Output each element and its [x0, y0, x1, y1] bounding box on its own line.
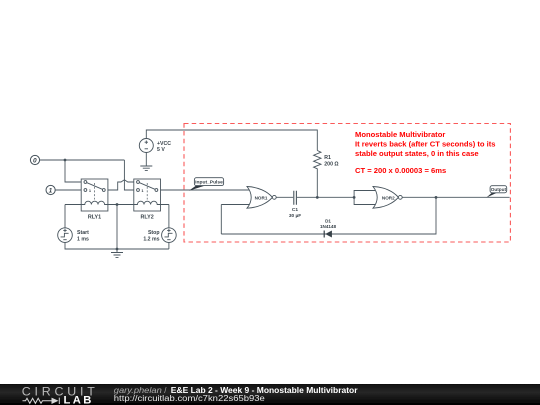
- svg-text:0: 0: [33, 158, 37, 165]
- svg-text:R1: R1: [324, 155, 331, 161]
- svg-text:stable output states, 0 in thi: stable output states, 0 in this case: [355, 149, 479, 158]
- svg-text:NOR2: NOR2: [382, 195, 395, 200]
- svg-text:D1: D1: [325, 218, 331, 223]
- svg-text:1N4148: 1N4148: [320, 224, 337, 229]
- svg-text:LAB: LAB: [64, 394, 94, 405]
- svg-text:200 Ω: 200 Ω: [324, 161, 338, 167]
- svg-text:It reverts back (after CT seco: It reverts back (after CT seconds) to it…: [355, 139, 496, 148]
- svg-text:Input_Pulse: Input_Pulse: [195, 180, 223, 186]
- svg-text:Stop: Stop: [148, 230, 160, 236]
- svg-text:http://circuitlab.com/c7kn22s6: http://circuitlab.com/c7kn22s65b93e: [114, 394, 266, 403]
- svg-text:1: 1: [49, 188, 53, 195]
- svg-text:Monostable Multivibrator: Monostable Multivibrator: [355, 130, 445, 139]
- svg-text:5 V: 5 V: [157, 147, 165, 153]
- svg-text:1.2 ms: 1.2 ms: [143, 236, 159, 242]
- svg-text:1 ms: 1 ms: [77, 236, 89, 242]
- svg-text:CT = 200 x 0.00003 = 6ms: CT = 200 x 0.00003 = 6ms: [355, 166, 446, 175]
- svg-text:C1: C1: [292, 207, 298, 213]
- svg-text:RLY1: RLY1: [88, 215, 101, 221]
- svg-text:NOR1: NOR1: [255, 195, 268, 200]
- svg-text:Output: Output: [491, 187, 507, 192]
- svg-text:RLY2: RLY2: [140, 215, 153, 221]
- svg-text:30 µF: 30 µF: [289, 213, 301, 219]
- svg-text:Start: Start: [77, 230, 89, 236]
